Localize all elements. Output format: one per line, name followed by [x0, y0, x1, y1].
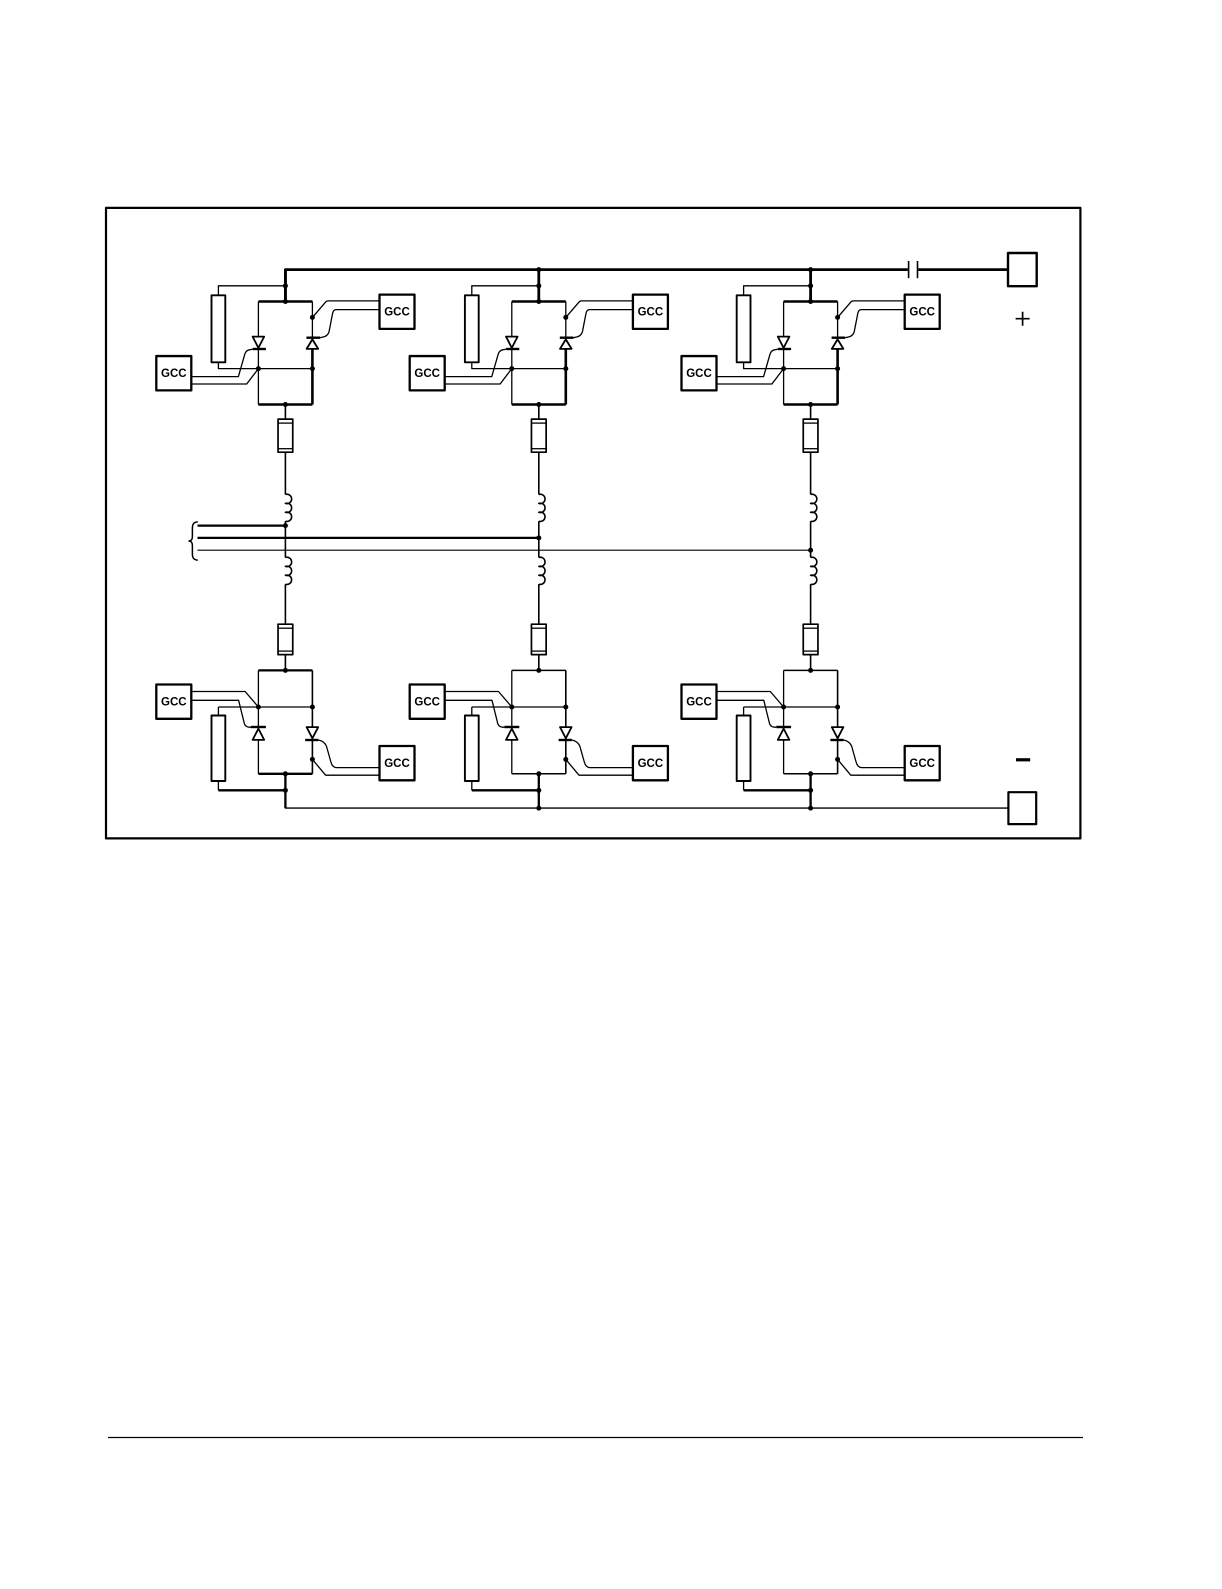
- wire: lower box right side leg 3: [837, 670, 839, 773]
- wire: inductor to fuse leg 2: [538, 584, 540, 624]
- wire: cathode lead leg 2 lower-left: [445, 692, 512, 708]
- fuse F2a: [531, 419, 546, 452]
- node: mid-left junction leg 1: [256, 366, 261, 371]
- node: tap junction leg 2: [536, 283, 541, 288]
- GCC box leg 1 upper-right: [380, 295, 415, 329]
- wire: box right side upper leg 3: [837, 302, 839, 338]
- wire: drop to DC- bus leg 3: [809, 774, 811, 808]
- GCC box leg 1 lower-left: [156, 685, 191, 719]
- wire: snubber tap leg 1: [218, 286, 285, 296]
- wire: resistor to midpoint leg 2: [472, 362, 512, 368]
- inductor L2a: [539, 494, 545, 521]
- node: mid-right junction leg 2: [563, 366, 568, 371]
- wire: lower box midpoint line leg 1: [218, 706, 312, 708]
- thyristor T13 (left, up): [251, 727, 266, 740]
- GCC box leg 3 upper-left: [682, 356, 717, 390]
- device box bottom lower leg 3: [784, 773, 838, 775]
- wire: lower box left side leg 2: [511, 670, 513, 773]
- wire: cathode lead leg 1 lower-left: [191, 692, 258, 708]
- wire: resistor to midpoint leg 3: [744, 362, 784, 368]
- node: tap junction leg 3: [808, 283, 813, 288]
- wire: lower snubber link leg 2: [471, 707, 473, 716]
- wire: drop to DC- bus leg 1: [284, 774, 286, 808]
- wire: resistor to midpoint leg 1: [218, 362, 258, 368]
- device box top lower leg 1: [258, 669, 312, 671]
- GCC box leg 3 lower-right: [905, 746, 940, 780]
- wire: interphase link leg 2: [538, 521, 540, 557]
- wire: lower snubber to bus leg 3: [743, 781, 745, 790]
- inductor L3b: [811, 557, 817, 584]
- node: DC- bus junction leg 2: [536, 806, 541, 811]
- terminal DC-: [1008, 792, 1036, 824]
- wire: DC+ bus: [285, 270, 907, 302]
- GCC box leg 1 lower-right: [380, 746, 415, 780]
- three-phase brace: [189, 522, 198, 561]
- device box top leg 1: [258, 300, 312, 303]
- node: lower box bottom junction leg 2: [536, 771, 541, 776]
- svg-text:GCC: GCC: [384, 307, 410, 319]
- resistor R2b (snubber): [465, 716, 479, 782]
- wire: gate lead leg 1 lower-left: [191, 700, 251, 727]
- node: bus junction leg 2: [536, 267, 541, 272]
- thyristor T32 (right, up): [832, 338, 846, 349]
- svg-text:GCC: GCC: [686, 368, 712, 380]
- wire: fuse to inductor leg 3: [810, 452, 812, 494]
- inductor L1a: [285, 494, 291, 521]
- wire: cathode lead leg 3 lower-left: [717, 692, 784, 708]
- thyristor T21 (left, down): [506, 337, 519, 349]
- node: cathode junction leg 1: [310, 315, 315, 320]
- fuse F2b: [531, 624, 546, 654]
- svg-text:GCC: GCC: [638, 307, 664, 319]
- wire: inductor to fuse leg 3: [810, 584, 812, 624]
- inductor L3a: [811, 494, 817, 521]
- wire: inductor to fuse leg 1: [284, 584, 286, 624]
- wire: lower box right side leg 2: [565, 670, 567, 773]
- device box bottom lower leg 2: [512, 773, 566, 775]
- wire: fuse to lower box leg 1: [284, 655, 286, 671]
- wire: fuse to inductor leg 1: [284, 452, 286, 494]
- node: lower mid-left junction leg 1: [256, 705, 261, 710]
- GCC box leg 2 lower-right: [633, 746, 668, 780]
- wire: DC+ bus right of capacitor: [918, 268, 1008, 271]
- resistor R2a (snubber): [465, 295, 479, 362]
- wire: DC+ bus drop leg 2: [537, 270, 540, 302]
- thyristor T12 (right, up): [306, 338, 320, 349]
- GCC box leg 1 upper-left: [156, 356, 191, 390]
- GCC box leg 2 lower-left: [410, 685, 445, 719]
- wire: cathode lead leg 2 upper-right: [566, 301, 633, 318]
- wire: lower box left side leg 1: [257, 670, 259, 773]
- device box bottom leg 1: [258, 403, 312, 406]
- wire: gate lead leg 3 lower-right: [844, 740, 905, 768]
- footer rule: [108, 1437, 1083, 1439]
- wire: phase line 3: [198, 549, 811, 551]
- wire: gate lead leg 3 upper-left: [717, 349, 779, 377]
- wire: gate lead leg 1 upper-right: [320, 310, 380, 338]
- wire: gate lead leg 2 lower-right: [572, 740, 633, 768]
- node: phase 3 junction: [808, 548, 813, 553]
- device box bottom leg 2: [512, 403, 566, 406]
- wire: lower snubber to bus leg 1: [217, 781, 219, 790]
- wire: interphase link leg 1: [284, 521, 286, 557]
- device box top leg 3: [784, 300, 838, 303]
- node: lower box bottom junction leg 3: [808, 771, 813, 776]
- wire: gate lead leg 2 upper-right: [573, 310, 633, 338]
- wire: box to fuse leg 3: [810, 405, 812, 420]
- node: snubber junction leg 2: [536, 788, 541, 793]
- resistor R1b (snubber): [212, 716, 226, 782]
- resistor R3b (snubber): [737, 716, 751, 782]
- svg-text:GCC: GCC: [686, 696, 712, 708]
- wire: cathode lead leg 1 upper-left: [191, 369, 258, 384]
- node: tap junction leg 1: [283, 283, 288, 288]
- wire: fuse to inductor leg 2: [538, 452, 540, 494]
- node: lower box bottom junction leg 1: [283, 771, 288, 776]
- node: mid-left junction leg 2: [509, 366, 514, 371]
- wire: lower box right side leg 1: [311, 670, 313, 773]
- node: box top junction leg 3: [808, 299, 813, 304]
- wire: lower snubber to bus leg 2: [471, 781, 473, 790]
- wire: lower snubber link leg 1: [217, 707, 219, 716]
- thyristor T11 (left, down): [253, 337, 266, 349]
- node: lower box top junction leg 2: [536, 668, 541, 673]
- node: cathode junction leg 3: [835, 315, 840, 320]
- wire: DC+ bus drop leg 1: [284, 270, 287, 302]
- frame border: [106, 208, 1080, 839]
- node: lower cathode junction leg 1: [310, 757, 315, 762]
- wire: snubber bus (bold) leg 2: [472, 789, 539, 791]
- wire: gate lead leg 3 upper-right: [845, 310, 905, 338]
- wire: cathode lead leg 1 lower-right: [312, 759, 379, 775]
- thyristor T22 (right, up): [560, 338, 574, 349]
- svg-text:GCC: GCC: [384, 758, 410, 770]
- wire: box right side upper leg 2: [565, 302, 567, 338]
- svg-text:GCC: GCC: [161, 368, 187, 380]
- node: mid-right junction leg 1: [310, 366, 315, 371]
- fuse F1a: [278, 419, 293, 452]
- wire: drop to DC- bus leg 2: [538, 774, 540, 808]
- wire: fuse to lower box leg 3: [810, 655, 812, 671]
- resistor R3a (snubber): [737, 295, 751, 362]
- svg-text:GCC: GCC: [414, 368, 440, 380]
- wire: box right side lower (bold) leg 2: [564, 349, 567, 405]
- wire: box right side upper leg 1: [311, 302, 313, 338]
- wire: cathode lead leg 2 upper-left: [445, 369, 512, 384]
- node: lower box top junction leg 1: [283, 668, 288, 673]
- wire: box right side lower (bold) leg 1: [311, 349, 314, 405]
- node: mid-right junction leg 3: [835, 366, 840, 371]
- GCC box leg 3 upper-right: [905, 295, 940, 329]
- thyristor T34 (right, down): [830, 727, 843, 740]
- node: DC- bus junction leg 3: [808, 806, 813, 811]
- node: phase 2 junction: [536, 535, 541, 540]
- fuse F1b: [278, 624, 293, 654]
- wire: box to fuse leg 2: [538, 405, 540, 420]
- thyristor T33 (left, up): [776, 727, 791, 740]
- node: lower mid-left junction leg 2: [509, 705, 514, 710]
- node: box top junction leg 1: [283, 299, 288, 304]
- svg-text:GCC: GCC: [909, 307, 935, 319]
- wire: gate lead leg 3 lower-left: [717, 700, 777, 727]
- fuse F3a: [803, 419, 818, 452]
- wire: DC- bus: [285, 790, 1008, 808]
- wire: gate lead leg 1 lower-right: [318, 740, 379, 768]
- wire: phase line 2: [198, 537, 539, 539]
- node: box top junction leg 2: [536, 299, 541, 304]
- wire: phase line 1: [198, 524, 286, 526]
- wire: box left side leg 1: [257, 302, 259, 405]
- wire: lower snubber link leg 3: [743, 707, 745, 716]
- GCC box leg 2 upper-right: [633, 295, 668, 329]
- wire: snubber tap leg 2: [472, 286, 539, 296]
- wire: DC+ bus drop leg 3: [809, 270, 812, 302]
- wire: snubber tap leg 3: [744, 286, 811, 296]
- wire: box right side lower (bold) leg 3: [836, 349, 839, 405]
- wire: box left side leg 3: [783, 302, 785, 405]
- device box top leg 2: [512, 300, 566, 303]
- node: bus junction leg 3: [808, 267, 813, 272]
- wire: cathode lead leg 2 lower-right: [566, 759, 633, 775]
- wire: cathode lead leg 1 upper-right: [312, 301, 379, 318]
- minus sign: [1016, 758, 1030, 761]
- node: snubber junction leg 3: [808, 788, 813, 793]
- thyristor T24 (right, down): [559, 727, 572, 740]
- plus sign: [1016, 312, 1030, 326]
- thyristor T31 (left, down): [778, 337, 791, 349]
- thyristor T14 (right, down): [305, 727, 318, 740]
- node: lower cathode junction leg 2: [563, 757, 568, 762]
- wire: box midpoint line leg 3: [784, 368, 838, 370]
- wire: interphase link leg 3: [810, 521, 812, 557]
- wire: gate lead leg 2 upper-left: [445, 349, 507, 377]
- device box top lower leg 2: [512, 669, 566, 671]
- wire: lower box midpoint line leg 2: [472, 706, 566, 708]
- resistor R1a (snubber): [212, 295, 226, 362]
- wire: gate lead leg 2 lower-left: [445, 700, 505, 727]
- node: box bottom junction leg 2: [536, 402, 541, 407]
- wire: gate lead leg 1 upper-left: [191, 349, 253, 377]
- device box bottom lower leg 1: [258, 773, 312, 775]
- wire: lower box midpoint line leg 3: [744, 706, 838, 708]
- wire: box midpoint line leg 1: [258, 368, 312, 370]
- wire: box left side leg 2: [511, 302, 513, 405]
- node: lower box top junction leg 3: [808, 668, 813, 673]
- node: box bottom junction leg 1: [283, 402, 288, 407]
- svg-text:GCC: GCC: [414, 696, 440, 708]
- node: phase 1 junction: [283, 523, 288, 528]
- inductor L1b: [285, 557, 291, 584]
- svg-text:GCC: GCC: [638, 758, 664, 770]
- svg-text:GCC: GCC: [909, 758, 935, 770]
- svg-text:GCC: GCC: [161, 696, 187, 708]
- wire: box midpoint line leg 2: [512, 368, 566, 370]
- GCC box leg 2 upper-left: [410, 356, 445, 390]
- node: snubber junction leg 1: [283, 788, 288, 793]
- wire: snubber bus (bold) leg 3: [744, 789, 811, 791]
- node: cathode junction leg 2: [563, 315, 568, 320]
- terminal DC+: [1008, 253, 1037, 286]
- fuse F3b: [803, 624, 818, 654]
- node: lower mid-right junction leg 2: [563, 705, 568, 710]
- inductor L2b: [539, 557, 545, 584]
- node: lower cathode junction leg 3: [835, 757, 840, 762]
- node: mid-left junction leg 3: [781, 366, 786, 371]
- node: box bottom junction leg 3: [808, 402, 813, 407]
- node: lower mid-right junction leg 1: [310, 705, 315, 710]
- node: lower mid-right junction leg 3: [835, 705, 840, 710]
- wire: cathode lead leg 3 lower-right: [838, 759, 905, 775]
- wire: box to fuse leg 1: [284, 405, 286, 420]
- GCC box leg 3 lower-left: [682, 685, 717, 719]
- wire: cathode lead leg 3 upper-left: [717, 369, 784, 384]
- wire: fuse to lower box leg 2: [538, 655, 540, 671]
- capacitor C1: [909, 261, 918, 278]
- device box bottom leg 3: [784, 403, 838, 406]
- device box top lower leg 3: [784, 669, 838, 671]
- thyristor T23 (left, up): [504, 727, 519, 740]
- wire: snubber bus (bold) leg 1: [218, 789, 285, 791]
- wire: lower box left side leg 3: [783, 670, 785, 773]
- wire: cathode lead leg 3 upper-right: [838, 301, 905, 318]
- node: lower mid-left junction leg 3: [781, 705, 786, 710]
